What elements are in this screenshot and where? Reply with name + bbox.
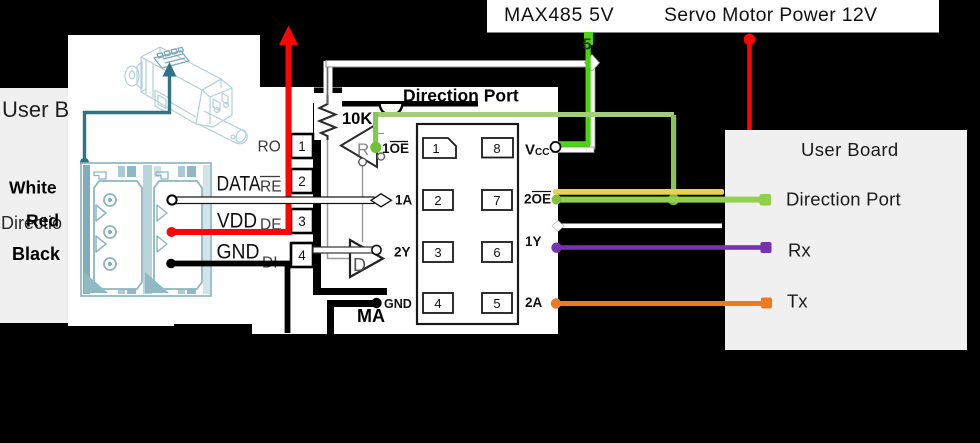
module pin box 4 xyxy=(291,243,313,267)
DATA white wire xyxy=(171,197,374,204)
svg-text:5: 5 xyxy=(493,296,500,311)
2Y white wire xyxy=(313,247,373,253)
servo top connector xyxy=(154,47,189,68)
svg-text:Servo Motor Power 12V: Servo Motor Power 12V xyxy=(664,4,877,26)
module pin box 3 xyxy=(291,209,313,233)
svg-text:White: White xyxy=(9,178,57,198)
green square terminal xyxy=(760,194,772,206)
svg-text:2: 2 xyxy=(298,174,306,189)
DIP pad 4 xyxy=(423,293,453,313)
2OE green wire to user board xyxy=(556,197,766,203)
teal wire from servo to connector xyxy=(85,74,170,160)
bright green 5V wire top stub xyxy=(584,32,593,45)
bright green 5V wire vertical xyxy=(586,32,591,145)
module body top edge xyxy=(341,101,478,107)
green dot at 1OE xyxy=(370,142,381,153)
servo white panel xyxy=(68,35,260,326)
module GND wire to bottom xyxy=(331,304,377,337)
light green vertical at x674 xyxy=(671,115,676,200)
purple square terminal xyxy=(761,242,772,253)
svg-text:R: R xyxy=(357,140,369,159)
DIP pad 7 xyxy=(482,190,512,210)
svg-text:Direction Port: Direction Port xyxy=(786,189,901,210)
svg-text:RE: RE xyxy=(260,179,282,196)
svg-text:8: 8 xyxy=(493,141,500,156)
white diamond at chip edge xyxy=(552,221,564,232)
module body bottom edge xyxy=(313,288,387,295)
svg-text:Tx: Tx xyxy=(787,291,808,312)
purple dot xyxy=(551,243,561,253)
svg-text:1: 1 xyxy=(298,139,306,154)
red power dot xyxy=(744,34,756,46)
DIP pad 3 xyxy=(423,242,453,262)
right user board gray panel xyxy=(725,130,967,350)
gray wire from R bubble down xyxy=(362,166,364,242)
svg-text:10K: 10K xyxy=(342,110,372,128)
red VDD wire xyxy=(173,44,289,232)
svg-text:2OE: 2OE xyxy=(524,192,551,207)
svg-text:User Board: User Board xyxy=(801,139,899,160)
white Vcc pull-up wire horizontal top xyxy=(326,61,594,68)
svg-text:2: 2 xyxy=(434,193,441,208)
svg-text:2Y: 2Y xyxy=(394,245,411,260)
svg-text:V: V xyxy=(525,142,535,159)
svg-text:VDD: VDD xyxy=(217,210,257,233)
purple Rx wire xyxy=(557,245,766,250)
MAX485 module white panel xyxy=(252,87,558,334)
MAX485 module body left edge xyxy=(313,103,321,295)
svg-text:4: 4 xyxy=(434,296,441,311)
module pin box 1 xyxy=(291,134,313,158)
DATA open circle at connector xyxy=(167,195,176,204)
VDD red dot xyxy=(167,227,177,237)
module notch xyxy=(380,104,403,115)
resistor top lead xyxy=(327,64,329,104)
red arrowhead up xyxy=(279,26,298,46)
teal junction dot xyxy=(80,158,89,167)
svg-text:Rx: Rx xyxy=(788,240,811,261)
svg-text:GND: GND xyxy=(217,241,260,264)
svg-text:5: 5 xyxy=(583,37,592,54)
black strip above resistor box xyxy=(314,88,342,94)
resistor background box xyxy=(314,93,342,140)
svg-text:RO: RO xyxy=(258,139,281,156)
Vcc pin circle xyxy=(551,142,561,152)
svg-text:1: 1 xyxy=(432,141,439,156)
servo output shaft cylinder xyxy=(198,111,248,144)
gray wire resistor to D driver xyxy=(328,140,351,259)
white Vcc wire vertical xyxy=(590,60,596,149)
GND black dot xyxy=(166,259,176,269)
connector housing right xyxy=(145,172,202,293)
light green elbow to 1OE xyxy=(373,112,378,144)
svg-text:Red: Red xyxy=(26,211,59,231)
DIP pad 6 xyxy=(482,242,512,262)
svg-text:1Y: 1Y xyxy=(525,234,542,249)
resistor lead white channel xyxy=(324,61,333,93)
servo connector block outer frame xyxy=(81,163,211,296)
svg-text:6: 6 xyxy=(493,245,500,260)
svg-text:2A: 2A xyxy=(525,295,543,310)
svg-text:D: D xyxy=(353,255,366,275)
green junction dot xyxy=(668,194,679,205)
connector housing left xyxy=(84,172,142,293)
svg-text:Direction Port: Direction Port xyxy=(403,86,519,106)
DATA arrow diamond at 1A xyxy=(371,194,392,207)
teal arrowhead into servo xyxy=(163,62,177,77)
top banner white box xyxy=(487,0,939,33)
bright green 5V wire to Vcc xyxy=(552,141,590,147)
black notch bottom left of servo panel xyxy=(174,324,252,334)
resistor R 10K zigzag xyxy=(320,95,336,140)
black GND wire xyxy=(172,264,288,334)
green dot at 2OE pin xyxy=(552,195,562,205)
svg-text:1OE: 1OE xyxy=(382,141,409,156)
pin numbers 1-4 xyxy=(298,139,306,263)
svg-text:MA: MA xyxy=(357,306,385,326)
svg-text:3: 3 xyxy=(298,214,306,229)
white Vcc wire to pin xyxy=(552,147,594,153)
svg-text:Black: Black xyxy=(12,244,61,264)
svg-text:DATA: DATA xyxy=(217,173,261,196)
orange square terminal xyxy=(761,298,772,309)
DIP pad 5 xyxy=(482,293,512,313)
svg-text:MAX485 5V: MAX485 5V xyxy=(504,4,614,26)
2Y bubble xyxy=(372,245,381,254)
DIP pad 1 xyxy=(423,138,456,158)
servo motor illustration xyxy=(125,47,232,127)
driver buffer D xyxy=(350,240,383,277)
svg-text:4: 4 xyxy=(298,248,306,263)
receiver buffer R xyxy=(341,124,385,167)
orange dot xyxy=(551,298,561,308)
DIP pinout outline xyxy=(417,124,518,324)
module pin box 2 xyxy=(291,169,313,193)
red servo power wire xyxy=(747,42,752,130)
DIP pad 2 xyxy=(423,190,453,210)
light green direction wire top horizontal xyxy=(373,112,674,117)
white diamond junction xyxy=(585,55,600,72)
svg-text:1A: 1A xyxy=(395,193,413,208)
left user-board gray panel xyxy=(0,88,104,323)
DIP pad 8 xyxy=(482,138,513,158)
svg-text:CC: CC xyxy=(535,147,549,158)
svg-text:3: 3 xyxy=(434,245,441,260)
orange Tx wire xyxy=(557,301,766,306)
yellow wire xyxy=(553,189,724,195)
svg-text:GND: GND xyxy=(384,297,412,311)
DIP pad numbers xyxy=(432,141,500,311)
svg-text:7: 7 xyxy=(493,193,500,208)
module GND dot xyxy=(371,298,381,308)
white wire to user board xyxy=(557,224,722,229)
